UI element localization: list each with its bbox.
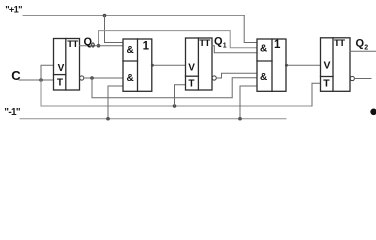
- svg-text:V: V: [58, 63, 65, 74]
- wire C down to clock rail: [41, 80, 312, 106]
- wire -1 riser to AND-OR block D2: [240, 86, 257, 119]
- svg-text:C: C: [11, 68, 21, 83]
- svg-text:"+1": "+1": [5, 5, 22, 15]
- svg-text:Q: Q: [214, 36, 223, 48]
- wire Q0 output: [80, 45, 124, 47]
- flip-flop T2 box: [186, 38, 213, 90]
- svg-text:&: &: [127, 73, 134, 84]
- wire +1 drop to AND-OR block D1: [105, 16, 124, 43]
- svg-text:1: 1: [143, 40, 150, 52]
- svg-text:TT: TT: [334, 38, 345, 49]
- svg-text:&: &: [127, 45, 134, 56]
- wire -1 riser to AND-OR block D1: [108, 86, 123, 119]
- wire Q2 output: [350, 50, 376, 52]
- svg-text:1: 1: [223, 43, 227, 50]
- wire +1 rail: [23, 15, 244, 17]
- flip-flop T1 box: [54, 39, 80, 91]
- flip-flop T3 box: [321, 38, 351, 92]
- wire clock riser to T input FF3: [312, 83, 321, 106]
- wire notQ1 to block D2: [216, 73, 257, 78]
- node junction dot C: [39, 78, 43, 82]
- wire notQ2 output: [355, 78, 372, 80]
- svg-text:V: V: [188, 63, 195, 74]
- wire C input: [19, 79, 54, 81]
- svg-text:V: V: [324, 60, 331, 72]
- svg-text:TT: TT: [67, 39, 78, 50]
- wire notQ0 to block D1: [84, 77, 123, 79]
- wire C riser to V input FF1: [41, 65, 54, 80]
- node junction dot clock rail: [173, 104, 177, 108]
- node junction dot notQ0: [90, 76, 94, 80]
- svg-text:T: T: [188, 78, 194, 89]
- node inverted output circle FF2: [212, 76, 216, 80]
- node stray dot bottom right: [370, 109, 376, 116]
- svg-text:2: 2: [364, 45, 368, 52]
- svg-text:T: T: [57, 77, 63, 88]
- wire clock riser to T input FF2: [175, 85, 186, 106]
- svg-text:T: T: [323, 78, 330, 90]
- svg-text:"-1": "-1": [4, 107, 21, 118]
- node junction dot -1 rail left: [106, 117, 110, 121]
- wire Q1 to block D2: [212, 46, 257, 53]
- wire D2 output to V input FF3: [286, 64, 321, 66]
- node junction dot Q0: [97, 44, 101, 48]
- svg-text:&: &: [260, 44, 267, 55]
- node junction dot -1 rail right: [238, 117, 242, 121]
- node inverted output circle FF3: [350, 76, 354, 80]
- node joint dot D1 output: [151, 64, 154, 67]
- svg-text:Q: Q: [356, 38, 365, 50]
- AND-OR block D2 box: [257, 39, 286, 91]
- svg-text:1: 1: [274, 39, 281, 51]
- node inverted output circle FF1: [80, 76, 84, 80]
- svg-text:&: &: [260, 72, 267, 83]
- wire -1 rail: [20, 118, 286, 120]
- node junction dot on +1 rail: [103, 14, 107, 18]
- wire Q0 rail: [99, 31, 258, 48]
- AND-OR block D1 box: [123, 39, 152, 91]
- svg-text:TT: TT: [199, 38, 210, 49]
- wire D1 output to V input FF2: [152, 64, 186, 66]
- wire notQ0 down and along to D2 riser: [92, 78, 257, 98]
- node joint dot D2 output: [285, 64, 288, 67]
- wire +1 drop to AND-OR block D2: [244, 16, 257, 43]
- svg-text:0: 0: [91, 43, 95, 50]
